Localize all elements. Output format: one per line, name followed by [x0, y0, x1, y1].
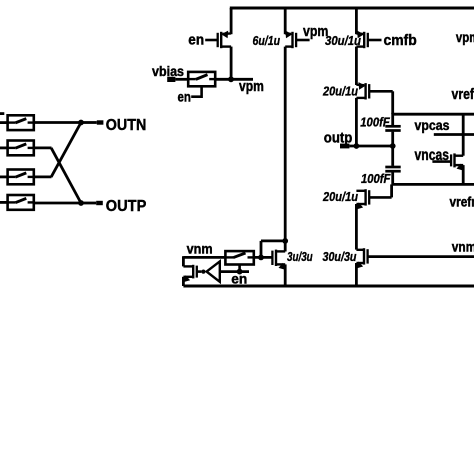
svg-text:vnm: vnm [187, 241, 213, 257]
svg-text:OUTN: OUTN [106, 117, 147, 134]
svg-text:vpm: vpm [456, 30, 474, 45]
svg-text:30u/1u: 30u/1u [325, 34, 361, 48]
transistor M3 30u/1u PMOS (cmfb) [356, 31, 381, 49]
svg-text:6u/1u: 6u/1u [253, 34, 281, 48]
svg-text:vbias: vbias [152, 63, 184, 79]
wire M3 source to rail [355, 8, 358, 34]
transistor M8 clamp NMOS [183, 265, 202, 283]
wire M4 gate vertical [391, 91, 394, 114]
svg-text:vpcas: vpcas [415, 118, 450, 133]
svg-text:vpm: vpm [239, 79, 264, 95]
wire M7 diode connection horizontal [261, 239, 285, 242]
svg-text:cmfb: cmfb [384, 32, 417, 49]
wire ground bottom rail [183, 285, 474, 288]
wire S5 output to vpm node [215, 78, 253, 81]
wire M3 drain to M4 source [355, 47, 358, 85]
wire S2 output stub [34, 146, 52, 149]
wire inverter input [220, 270, 249, 273]
wire right vertical lower (vncas chain) [462, 165, 465, 184]
svg-text:30u/3u: 30u/3u [323, 250, 357, 264]
wire OUTP node to terminal [81, 202, 96, 205]
transistor M5 20u/1u NMOS cascode [356, 189, 392, 209]
wire S4 output to OUTP node [34, 202, 81, 205]
capacitor C2 100fF lower [385, 146, 400, 184]
svg-text:OUTP: OUTP [106, 198, 147, 215]
wire S1 input stub [0, 121, 8, 124]
wire S3 output stub [34, 175, 52, 178]
wire M2 drain down to M7 drain [284, 47, 287, 252]
node outp junction left [354, 143, 360, 149]
terminal OUTN [97, 120, 104, 124]
wire M5 source down to M6 drain [355, 204, 358, 250]
wire M7 source to ground [284, 264, 287, 286]
node en junction [237, 269, 243, 275]
svg-text:en: en [231, 270, 247, 286]
node vpm junction [228, 76, 234, 82]
wire vncas lower node line [392, 183, 474, 186]
capacitor C1 100fF upper [385, 113, 400, 146]
node outp junction right [390, 143, 396, 149]
transistor M7 3u/3u NMOS diode [272, 250, 286, 270]
wire M1 drain to vpm node [230, 47, 233, 80]
node M7 drain junction [282, 238, 288, 244]
wire S1 output to OUTN node [34, 121, 81, 124]
wire right vertical upper (vpcas chain) [462, 114, 465, 156]
svg-text:100fF: 100fF [361, 172, 391, 186]
svg-text:20u/1u: 20u/1u [322, 85, 358, 99]
transistor M9 vncas NMOS switch [432, 153, 464, 170]
wire S4 input stub [0, 201, 8, 204]
svg-text:20u/1u: 20u/1u [322, 190, 358, 204]
svg-text:3u/3u: 3u/3u [287, 250, 313, 264]
wire M2 source to rail [284, 8, 287, 34]
svg-text:100fF: 100fF [360, 115, 390, 129]
wire cut stub top-left [0, 112, 4, 115]
wire vpcas stub [434, 133, 474, 136]
wire M7 diode connection vertical [260, 241, 263, 258]
wire S5 control stub [191, 86, 201, 96]
wire M8 source to ground [182, 277, 185, 286]
wire vnm line left [183, 256, 225, 259]
wire M5 gate vertical [390, 184, 393, 197]
wire VDD top rail [230, 7, 474, 10]
wire vpcas upper node line [393, 113, 474, 116]
wire S2 input stub [0, 146, 8, 149]
switch S6 (vnm enable) box [225, 251, 253, 264]
wire S3 diagonal to OUTN node [51, 123, 81, 177]
wire M4 drain to outp node [355, 98, 358, 146]
node M7 gate junction [258, 255, 264, 261]
transistor M1 en-switch PMOS [205, 31, 231, 49]
svg-text:vnm: vnm [452, 239, 474, 255]
inverter U1 [201, 261, 220, 281]
terminal vbias [167, 77, 175, 82]
wire OUTN node to terminal [81, 121, 97, 124]
wire S2 diagonal to OUTP node [51, 148, 81, 203]
svg-text:vrefn: vrefn [450, 194, 474, 210]
node OUTN junction [78, 120, 84, 126]
switch S4 box [8, 195, 34, 210]
wire outp line [349, 145, 392, 148]
wire S6 output to M7 gate [254, 256, 273, 259]
wire M6 source to ground rail [355, 263, 358, 286]
wire S6 control stub [238, 265, 241, 272]
wire M1 source to rail [230, 8, 233, 34]
terminal outp [340, 144, 349, 149]
switch S2 box [8, 141, 34, 156]
svg-text:en: en [178, 88, 191, 104]
wire vbias terminal to switch [175, 78, 188, 81]
terminal OUTP [96, 201, 103, 205]
svg-text:vrefp: vrefp [452, 87, 474, 103]
wire S3 input stub [0, 175, 8, 178]
transistor M4 20u/1u PMOS cascode [356, 82, 392, 99]
switch S3 box [8, 170, 34, 185]
svg-text:en: en [188, 32, 204, 49]
transistor M6 30u/3u NMOS [356, 248, 474, 268]
switch S5 (vbias enable) box [188, 72, 215, 86]
wire M8 drain to vnm line [182, 256, 185, 266]
node OUTP junction [78, 200, 84, 206]
switch S1 box [8, 115, 34, 130]
transistor M2 6u/1u PMOS [285, 31, 309, 49]
